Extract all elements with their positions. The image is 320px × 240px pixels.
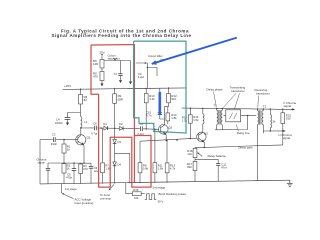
svg-text:47nf: 47nf bbox=[221, 166, 227, 170]
diode D3 zener bbox=[114, 128, 116, 139]
capacitor C4 bbox=[65, 117, 71, 119]
svg-text:signal: signal bbox=[284, 104, 292, 108]
junction dots diode row bbox=[80, 127, 81, 128]
wire ACC input bbox=[61, 184, 63, 193]
svg-text:1st stage: 1st stage bbox=[65, 187, 77, 191]
svg-text:4.7k: 4.7k bbox=[170, 167, 176, 171]
svg-text:1.8k: 1.8k bbox=[158, 166, 164, 170]
svg-text:saturation: saturation bbox=[108, 56, 121, 60]
junction dots emitter row bbox=[63, 162, 64, 163]
resistor R9 bbox=[113, 94, 117, 104]
wire R2 bbox=[63, 173, 65, 184]
ground rail bbox=[40, 180, 290, 184]
svg-text:470n: 470n bbox=[66, 176, 73, 180]
wire R1 drop bbox=[63, 140, 65, 144]
wire upper R13 bbox=[167, 107, 169, 113]
svg-text:390: 390 bbox=[187, 165, 192, 169]
transistor Q2 bbox=[159, 125, 169, 141]
svg-text:Direct path: Direct path bbox=[239, 146, 253, 150]
wire R5-R6 bbox=[101, 68, 103, 72]
svg-text:transducer: transducer bbox=[231, 89, 245, 93]
svg-text:signal: signal bbox=[38, 161, 46, 165]
wire R4 bbox=[80, 162, 82, 165]
svg-text:D1: D1 bbox=[103, 122, 107, 126]
svg-text:pre-amp: pre-amp bbox=[101, 197, 112, 201]
svg-text:470: 470 bbox=[83, 167, 88, 171]
resistor R19 horizontal bbox=[126, 183, 133, 194]
svg-text:1.5k: 1.5k bbox=[193, 118, 199, 122]
wire pot right leg bbox=[130, 61, 132, 83]
diode D1 bbox=[104, 126, 107, 130]
capacitor C3 bbox=[52, 137, 54, 142]
transformer T2 bbox=[258, 109, 264, 181]
wire R3 bottom to node bbox=[80, 104, 82, 117]
wire U chroma arrow head bbox=[284, 130, 286, 132]
resistor R18 bbox=[193, 148, 197, 157]
wire R11 bbox=[154, 129, 156, 163]
resistor R13 upper bbox=[166, 113, 170, 121]
right top rail bbox=[182, 108, 291, 109]
wire R13 lower bbox=[166, 141, 168, 163]
resistor R17 bbox=[193, 161, 197, 170]
wire U chroma node bbox=[263, 130, 283, 132]
junction dots right rail bbox=[190, 108, 191, 109]
wire colour killer line bbox=[136, 63, 157, 88]
svg-text:2.2µf: 2.2µf bbox=[138, 75, 144, 79]
svg-text:Q3: Q3 bbox=[204, 132, 208, 136]
resistor R4 bbox=[79, 164, 83, 174]
svg-text:signal: signal bbox=[283, 136, 291, 140]
svg-text:transducer: transducer bbox=[256, 91, 270, 95]
wire C4 branch bbox=[68, 113, 81, 118]
svg-text:D3: D3 bbox=[117, 140, 121, 144]
svg-text:Burst blanking pulses: Burst blanking pulses bbox=[159, 192, 187, 196]
resistor R15 bbox=[281, 113, 285, 124]
wire delay box to T2 bbox=[241, 114, 257, 116]
resistor R13 lower bbox=[165, 163, 169, 173]
svg-text:25V: 25V bbox=[100, 50, 105, 54]
wire delay balance chain bbox=[195, 146, 204, 149]
resistor R1 bbox=[62, 144, 66, 153]
diode D4 bbox=[113, 162, 117, 166]
wire C11 bbox=[195, 159, 218, 163]
wire R10 bbox=[145, 88, 147, 93]
wire D3 jog return bbox=[115, 153, 130, 183]
wire R3 top bbox=[80, 89, 82, 94]
wire R8 bbox=[139, 141, 141, 163]
resistor R2 bbox=[62, 164, 66, 174]
wire direct path bbox=[204, 145, 282, 148]
resistor R16 bbox=[188, 115, 192, 123]
resistor R10 bbox=[144, 94, 148, 103]
resistor R8 bbox=[138, 163, 142, 173]
svg-text:12µ: 12µ bbox=[94, 169, 99, 173]
svg-text:110: 110 bbox=[187, 152, 192, 156]
svg-text:Delay balance: Delay balance bbox=[208, 154, 227, 158]
svg-text:12R: 12R bbox=[93, 62, 98, 66]
svg-text:D4: D4 bbox=[117, 162, 121, 166]
wire R12 to Q2 collector bbox=[168, 88, 170, 93]
resistor R3 bbox=[79, 95, 83, 105]
wire collector row Q1 to C8 bbox=[81, 127, 94, 129]
svg-text:68R: 68R bbox=[118, 97, 123, 101]
wire colour saturation wiper line bbox=[102, 60, 131, 62]
capacitor C8 bbox=[94, 126, 96, 131]
svg-text:C8: C8 bbox=[93, 122, 97, 126]
svg-text:D2: D2 bbox=[119, 122, 123, 126]
capacitor C5 bbox=[73, 163, 75, 169]
transistor Q1 bbox=[70, 128, 86, 163]
resistor R6 bbox=[100, 72, 104, 81]
svg-text:33pF: 33pF bbox=[51, 142, 58, 146]
wire blue highlight bar bbox=[158, 93, 161, 114]
svg-text:Delay phase: Delay phase bbox=[207, 87, 223, 91]
resistor R12 bbox=[167, 94, 171, 103]
wire input vertical bbox=[39, 140, 41, 184]
svg-text:+15V: +15V bbox=[64, 84, 71, 88]
svg-text:1.5k: 1.5k bbox=[182, 118, 188, 122]
svg-text:Signal Amplifiers Feeding into: Signal Amplifiers Feeding into the Chrom… bbox=[51, 33, 191, 38]
svg-text:Q1: Q1 bbox=[87, 135, 91, 139]
svg-text:R19: R19 bbox=[133, 188, 139, 192]
inductor L2 Q3 collector bbox=[202, 108, 204, 114]
wire red highlight path A (1st stage box) bbox=[91, 45, 134, 183]
wire blue annotation arrow (colour killer pointer) bbox=[152, 38, 237, 64]
svg-text:4.7n: 4.7n bbox=[146, 113, 152, 117]
inductor 2k bbox=[269, 109, 271, 115]
wire red highlight path B (signal trace) bbox=[91, 45, 151, 187]
resistor R5 bbox=[100, 60, 104, 69]
svg-text:1k: 1k bbox=[67, 148, 71, 152]
wire R9 bbox=[114, 89, 116, 94]
svg-text:T2: T2 bbox=[263, 105, 267, 109]
svg-text:470: 470 bbox=[93, 75, 98, 79]
svg-text:T1: T1 bbox=[213, 103, 217, 107]
wire V chroma arrow bbox=[291, 108, 295, 110]
capacitor C9 bbox=[140, 126, 142, 131]
resistor R7 bbox=[101, 163, 105, 173]
+15V rail bbox=[63, 88, 186, 90]
svg-text:82: 82 bbox=[84, 98, 88, 102]
svg-text:C3: C3 bbox=[52, 133, 56, 137]
delay line box bbox=[226, 110, 241, 122]
burst blanking waveform bbox=[145, 194, 156, 200]
node 25V supply terminal bbox=[101, 55, 103, 60]
diode D2 bbox=[120, 127, 123, 131]
svg-text:Delay line: Delay line bbox=[237, 131, 250, 135]
svg-text:input (positive): input (positive) bbox=[75, 201, 94, 205]
wire input to C3 bbox=[40, 139, 53, 141]
junction dots +15V rail bbox=[80, 89, 81, 90]
transistor Q3 bbox=[197, 132, 206, 147]
wire R6 to arrow bbox=[101, 81, 103, 85]
svg-text:10k: 10k bbox=[134, 196, 139, 200]
capacitor C7 bbox=[120, 61, 122, 74]
transformer T1 bbox=[217, 109, 223, 130]
svg-text:910: 910 bbox=[171, 97, 176, 101]
wire emitter row bbox=[48, 162, 91, 164]
svg-text:100nF: 100nF bbox=[55, 121, 63, 125]
ground symbol bbox=[287, 180, 293, 186]
svg-text:1.8k: 1.8k bbox=[171, 116, 177, 120]
wire Q2 emitter to Q3 base bbox=[140, 138, 197, 141]
svg-text:0.8k: 0.8k bbox=[143, 166, 149, 170]
svg-text:4.7µf: 4.7µf bbox=[91, 132, 97, 136]
wire delay box lower return bbox=[215, 116, 248, 130]
wire R16 bbox=[189, 108, 191, 115]
wire to burst preamp arrow bbox=[109, 185, 114, 190]
capacitor C6 bbox=[90, 163, 92, 166]
wire R15 bbox=[282, 109, 284, 113]
svg-text:2k: 2k bbox=[273, 120, 277, 124]
svg-text:1.3k: 1.3k bbox=[149, 97, 155, 101]
svg-text:L1: L1 bbox=[84, 120, 88, 124]
svg-text:30 V: 30 V bbox=[158, 199, 164, 203]
wire teal highlight loop (colour killer box) bbox=[134, 41, 186, 133]
wire colour killer drop (under blue bar) bbox=[159, 88, 161, 113]
resistor R11 bbox=[153, 163, 157, 173]
svg-text:390: 390 bbox=[286, 117, 291, 121]
inductor L1 bbox=[81, 117, 82, 128]
capacitor C10 bbox=[158, 112, 162, 114]
capacitor C2 bbox=[47, 163, 49, 168]
svg-text:2nd stage: 2nd stage bbox=[153, 186, 166, 190]
svg-text:Q2: Q2 bbox=[168, 125, 172, 129]
wire R7 bbox=[102, 128, 104, 163]
svg-text:C7: C7 bbox=[114, 72, 118, 76]
wiper delay balance bbox=[198, 153, 202, 157]
